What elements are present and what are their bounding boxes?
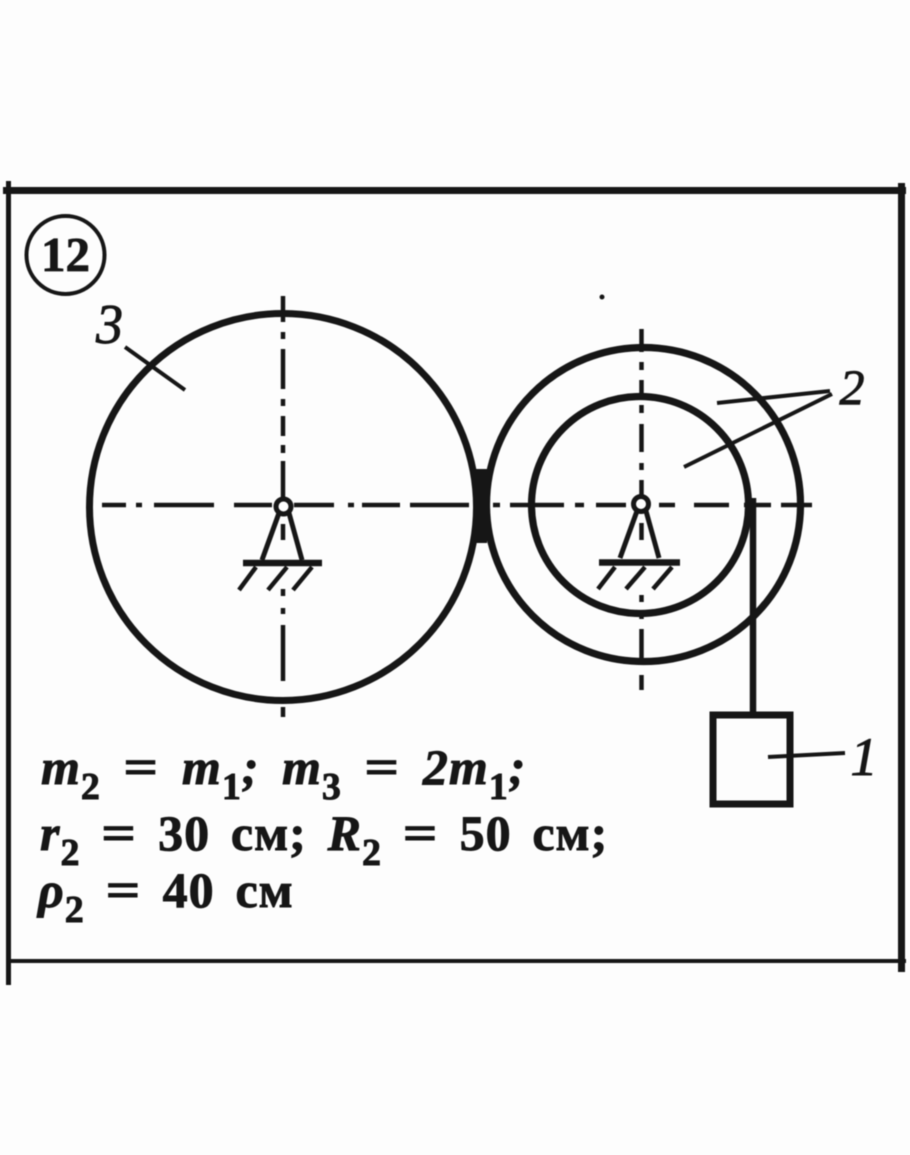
frame bottom border <box>6 959 906 963</box>
stray dot <box>600 295 605 300</box>
load block 1 <box>713 715 790 804</box>
leader line label 3 <box>125 347 185 390</box>
pivot support wheel 2: pin <box>634 497 649 512</box>
wheel 2 outer circle R2 <box>487 348 801 662</box>
problem number circle 12 <box>27 216 105 294</box>
frame right border <box>898 183 905 972</box>
frame top border <box>3 187 906 194</box>
pivot support wheel 3: triangle legs <box>262 513 302 560</box>
pivot support wheel 3: hatches <box>239 567 312 590</box>
tangency merge of wheel 3 and wheel 2 rims <box>474 469 488 543</box>
frame left border <box>6 181 11 985</box>
svg-text:3: 3 <box>95 294 123 356</box>
pivot support wheel 2: hatches <box>598 567 672 589</box>
vertical centerline wheel 3 <box>281 296 286 717</box>
rope from wheel 2 to load <box>750 498 757 716</box>
vertical centerline wheel 2 <box>639 329 644 690</box>
svg-text:12: 12 <box>41 227 90 282</box>
wheel 3 (large circle) <box>90 314 477 701</box>
pivot support wheel 2: triangle legs <box>620 511 659 558</box>
pivot support wheel 3: pin <box>276 499 291 514</box>
pivot support wheel 2: ground line <box>599 559 680 566</box>
svg-text:2: 2 <box>840 359 865 415</box>
leader line label 2 upper <box>717 391 830 403</box>
leader line label 2 lower <box>684 394 832 467</box>
horizontal centerline through both wheels <box>102 503 812 508</box>
wheel 2 inner circle r2 <box>532 397 749 614</box>
svg-text:1: 1 <box>851 727 878 787</box>
leader line label 1 <box>768 753 845 757</box>
svg-text:m2 = m1; m3 = 2m1;: m2 = m1; m3 = 2m1; <box>41 739 526 808</box>
pivot support wheel 3: ground line <box>243 560 322 567</box>
